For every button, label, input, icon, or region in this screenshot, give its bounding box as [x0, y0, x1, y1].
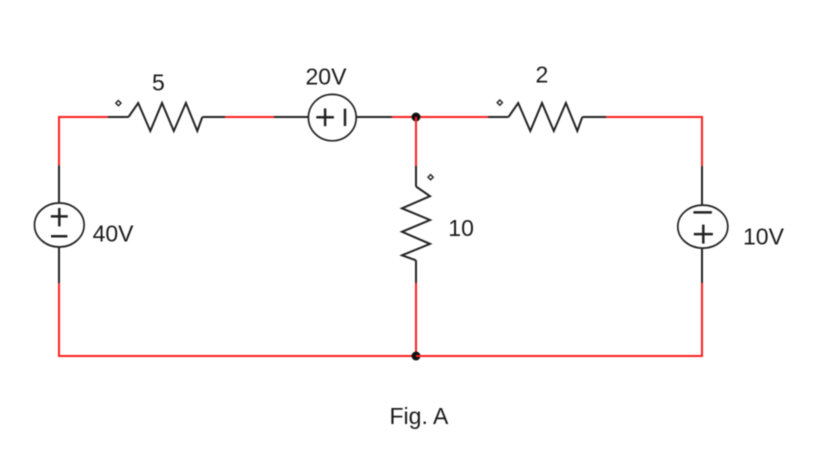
voltage source V3 10V — [678, 205, 728, 248]
voltage source V1 40V — [35, 203, 85, 247]
wire red between R1 and V2 — [225, 116, 274, 118]
wire V1 bottom lead — [58, 247, 60, 283]
voltage source V2 20V — [308, 94, 356, 140]
wire R1 right lead — [202, 116, 225, 118]
wire top-right red segment — [606, 117, 702, 166]
wire R2 right lead — [582, 116, 606, 118]
wire V1 top lead — [58, 166, 60, 204]
wire V3 top lead — [701, 166, 703, 205]
wire R3 bottom lead — [415, 260, 417, 283]
resistor R3 value 10 — [402, 187, 430, 261]
node A junction dot — [412, 113, 421, 122]
label 20V — [306, 64, 348, 90]
svg-text:40V: 40V — [93, 220, 135, 246]
wire middle red from node A down — [415, 117, 417, 166]
wire R1 left lead — [108, 116, 129, 118]
label 10V — [743, 223, 785, 249]
wire V2 right lead — [356, 116, 392, 118]
resistor R2 value 2 — [509, 103, 583, 131]
wire bottom-right red segment — [416, 283, 702, 356]
svg-text:20V: 20V — [306, 64, 348, 90]
wire red V2 to node A and on to R2 — [392, 116, 488, 118]
node marker near R2 — [497, 100, 502, 105]
svg-text:10V: 10V — [743, 223, 785, 249]
wire top-left red segment — [59, 117, 108, 166]
resistor R1 value 5 — [129, 103, 203, 131]
node marker near R3 — [428, 175, 433, 180]
wire R2 left lead — [488, 116, 509, 118]
label 5 — [152, 70, 165, 96]
label 2 — [536, 62, 549, 88]
wire red R3 to bottom node — [415, 283, 417, 356]
label 10 — [448, 215, 474, 241]
node marker near R1 — [116, 101, 121, 106]
node B junction dot — [412, 352, 421, 361]
wire V2 left lead — [274, 116, 308, 118]
wire V3 bottom lead — [701, 248, 703, 283]
caption Fig. A — [390, 403, 449, 429]
svg-text:10: 10 — [448, 215, 474, 241]
label 40V — [93, 220, 135, 246]
svg-text:Fig. A: Fig. A — [390, 403, 449, 429]
svg-text:5: 5 — [152, 70, 165, 96]
wire bottom-left red segment — [59, 283, 416, 356]
svg-text:2: 2 — [536, 62, 549, 88]
wire R3 top lead — [415, 166, 417, 187]
